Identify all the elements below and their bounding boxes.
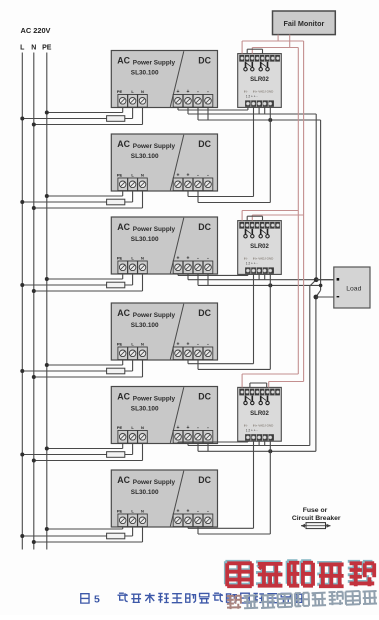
wire row1 SLR B2 to lower PSU + (V1) xyxy=(253,107,255,196)
wire PSU4 L to L bus xyxy=(132,360,134,371)
watermark big text (stylized) xyxy=(225,561,250,584)
wire load + xyxy=(316,296,339,298)
wire PSU3 L to L bus xyxy=(132,274,134,285)
wire row2 SLR B4 stub xyxy=(264,274,266,279)
junction PSU2 N xyxy=(32,206,36,210)
wire row2 SLR out to minus line xyxy=(269,274,271,285)
wire row1 SLR out to minus line xyxy=(269,107,271,120)
inline fuse on PSU2 L wire xyxy=(107,199,125,205)
inline fuse on PSU6 L wire xyxy=(107,533,125,539)
load + terminal mark xyxy=(337,278,340,281)
wire load + lead xyxy=(316,279,339,281)
power supply PSU2 (SL30.100) xyxy=(111,134,217,191)
inline fuse on PSU1 L wire xyxy=(107,116,125,122)
svg-text:AC 220V: AC 220V xyxy=(21,26,51,35)
load box xyxy=(334,267,370,308)
junction PSU5 PE xyxy=(45,447,49,451)
junction PSU3 PE xyxy=(45,277,49,281)
wire red bus B xyxy=(303,41,305,382)
junction PSU2 L xyxy=(20,200,24,204)
inline fuse on PSU5 L wire xyxy=(107,452,125,458)
junction PSU1 N xyxy=(32,123,36,127)
wire row2 SLR B3 stub xyxy=(258,274,260,279)
junction PSU4 N xyxy=(32,375,36,379)
junction row2 SLR output on minus line xyxy=(268,283,272,287)
junction PSU4 PE xyxy=(45,363,49,367)
wire row3 PSU- feed (L3) xyxy=(197,444,199,452)
wire row1 PSU- feed (L3) xyxy=(197,108,199,121)
svg-text:Fuse or: Fuse or xyxy=(303,507,328,514)
junction PSU3 L xyxy=(20,283,24,287)
wire row3 SLR B2 to lower PSU + (V1) xyxy=(253,441,255,528)
junction PSU1 PE xyxy=(45,111,49,115)
wire PSU3 N to N bus xyxy=(142,274,144,291)
load - terminal mark xyxy=(337,296,340,297)
junction + bus at load xyxy=(314,277,319,282)
redundancy module SLR02 U3 xyxy=(238,387,282,441)
inline fuse on PSU4 L wire xyxy=(107,368,125,374)
junction PSU6 N xyxy=(32,540,36,544)
wire PSU5 L to L bus xyxy=(132,444,134,455)
wire row1 PSU+ to SLR input (L1) xyxy=(177,108,179,111)
wire row3 SLR B3 stub xyxy=(258,441,260,445)
wire row3 SLR out to minus line xyxy=(269,441,271,451)
wire PSU4 PE to PE bus xyxy=(122,360,124,365)
wire PE bus xyxy=(46,53,48,550)
power supply PSU3 (SL30.100) xyxy=(111,217,217,274)
wire row2 minus link to lower PSU (V2) xyxy=(269,285,271,369)
wire PSU1 PE to PE bus xyxy=(122,108,124,113)
wire row2 PSU- feed (L3) xyxy=(197,274,199,285)
wire red tap A row3 xyxy=(242,373,298,375)
wire row2 PSU+ to SLR input (L1) xyxy=(177,274,179,275)
inline fuse on PSU3 L wire xyxy=(107,282,125,288)
junction PSU5 L xyxy=(20,453,24,457)
wire N bus xyxy=(33,53,35,550)
wire jumper above SLR row2 xyxy=(247,215,262,217)
junction PSU6 L xyxy=(20,534,24,538)
wire - bus jog at load xyxy=(316,290,321,297)
wire row1 minus link to lower PSU (V2) xyxy=(269,120,271,203)
wire + bus jog at load xyxy=(310,280,316,286)
power supply PSU1 (SL30.100) xyxy=(111,51,217,108)
wire row3 minus link to lower PSU (V2) xyxy=(269,451,271,534)
redundancy module SLR02 U1 xyxy=(238,54,282,108)
wire row1 SLR B4 stub xyxy=(264,107,266,114)
wire PSU6 L to L bus xyxy=(132,527,134,536)
wire - bus (upper) xyxy=(320,120,322,290)
fuse symbol xyxy=(301,525,331,527)
junction PSU2 PE xyxy=(45,194,49,198)
wire row3 PSU+ to SLR input (L1) xyxy=(177,442,179,444)
wire red row1 upper xyxy=(242,40,304,42)
wire red bus A xyxy=(297,48,299,375)
svg-text:N: N xyxy=(31,45,36,52)
wire row2 SLR B2 to lower PSU + (V1) xyxy=(253,274,255,363)
fail monitor box xyxy=(273,11,336,35)
power supply PSU5 (SL30.100) xyxy=(111,387,217,444)
wire row2 PSU+ feed (L2) xyxy=(187,274,189,280)
wire jumper above SLR row3 xyxy=(250,382,267,384)
wire fail monitor leg A xyxy=(277,35,279,41)
watermark small text (stylized) xyxy=(227,590,377,609)
wire red row1 lower xyxy=(252,47,298,49)
junction row3 SLR output on minus line xyxy=(268,449,272,453)
wire PSU4 N to N bus xyxy=(142,360,144,377)
wire PSU6 PE to PE bus xyxy=(122,527,124,529)
junction PSU4 L xyxy=(20,369,24,373)
junction row1 SLR output on minus line xyxy=(268,118,272,122)
junction PSU1 L xyxy=(20,117,24,121)
wire row1 SLR B3 stub xyxy=(258,107,260,114)
wire row3 PSU+ feed (L2) xyxy=(187,444,189,446)
wire red tap B row3 xyxy=(269,381,304,383)
wire PSU5 N to N bus xyxy=(142,444,144,461)
junction - bus row2 xyxy=(319,284,323,288)
wire L bus xyxy=(21,53,23,550)
wire jumper above SLR row1 xyxy=(247,48,262,50)
wire + bus (lower) xyxy=(309,286,311,446)
wire fail monitor leg B xyxy=(289,35,291,48)
wire row3 SLR B4 stub xyxy=(264,441,266,445)
wire PSU6 N to N bus xyxy=(142,527,144,542)
wire PSU1 L to L bus xyxy=(132,108,134,119)
wire PSU2 L to L bus xyxy=(132,191,134,202)
wire PSU1 N to N bus xyxy=(142,108,144,125)
power supply PSU4 (SL30.100) xyxy=(111,303,217,360)
svg-text:Fail Monitor: Fail Monitor xyxy=(284,19,325,28)
svg-text:PE: PE xyxy=(42,45,52,52)
wire PSU2 N to N bus xyxy=(142,191,144,208)
wire PSU2 PE to PE bus xyxy=(122,191,124,196)
redundancy module SLR02 U2 xyxy=(238,221,282,275)
junction PSU5 N xyxy=(32,459,36,463)
junction PSU3 N xyxy=(32,289,36,293)
wire row1 PSU+ feed (L2) xyxy=(187,108,189,115)
wire red tap A row2 xyxy=(242,210,298,212)
wire red tap B row2 xyxy=(252,214,303,216)
wire PSU3 PE to PE bus xyxy=(122,274,124,279)
svg-text:L: L xyxy=(20,45,25,52)
svg-text:Circuit Breaker: Circuit Breaker xyxy=(292,515,341,522)
junction PSU6 PE xyxy=(45,527,49,531)
power supply PSU6 (SL30.100) xyxy=(111,470,217,527)
svg-text:Load: Load xyxy=(346,286,361,293)
caption figure 5 (stylized) xyxy=(81,594,89,603)
wire - bus (lower) xyxy=(315,297,317,451)
junction - bus at load xyxy=(314,295,319,300)
svg-text:5: 5 xyxy=(94,594,100,606)
wire PSU5 PE to PE bus xyxy=(122,444,124,449)
wire + bus (upper) xyxy=(315,114,317,280)
